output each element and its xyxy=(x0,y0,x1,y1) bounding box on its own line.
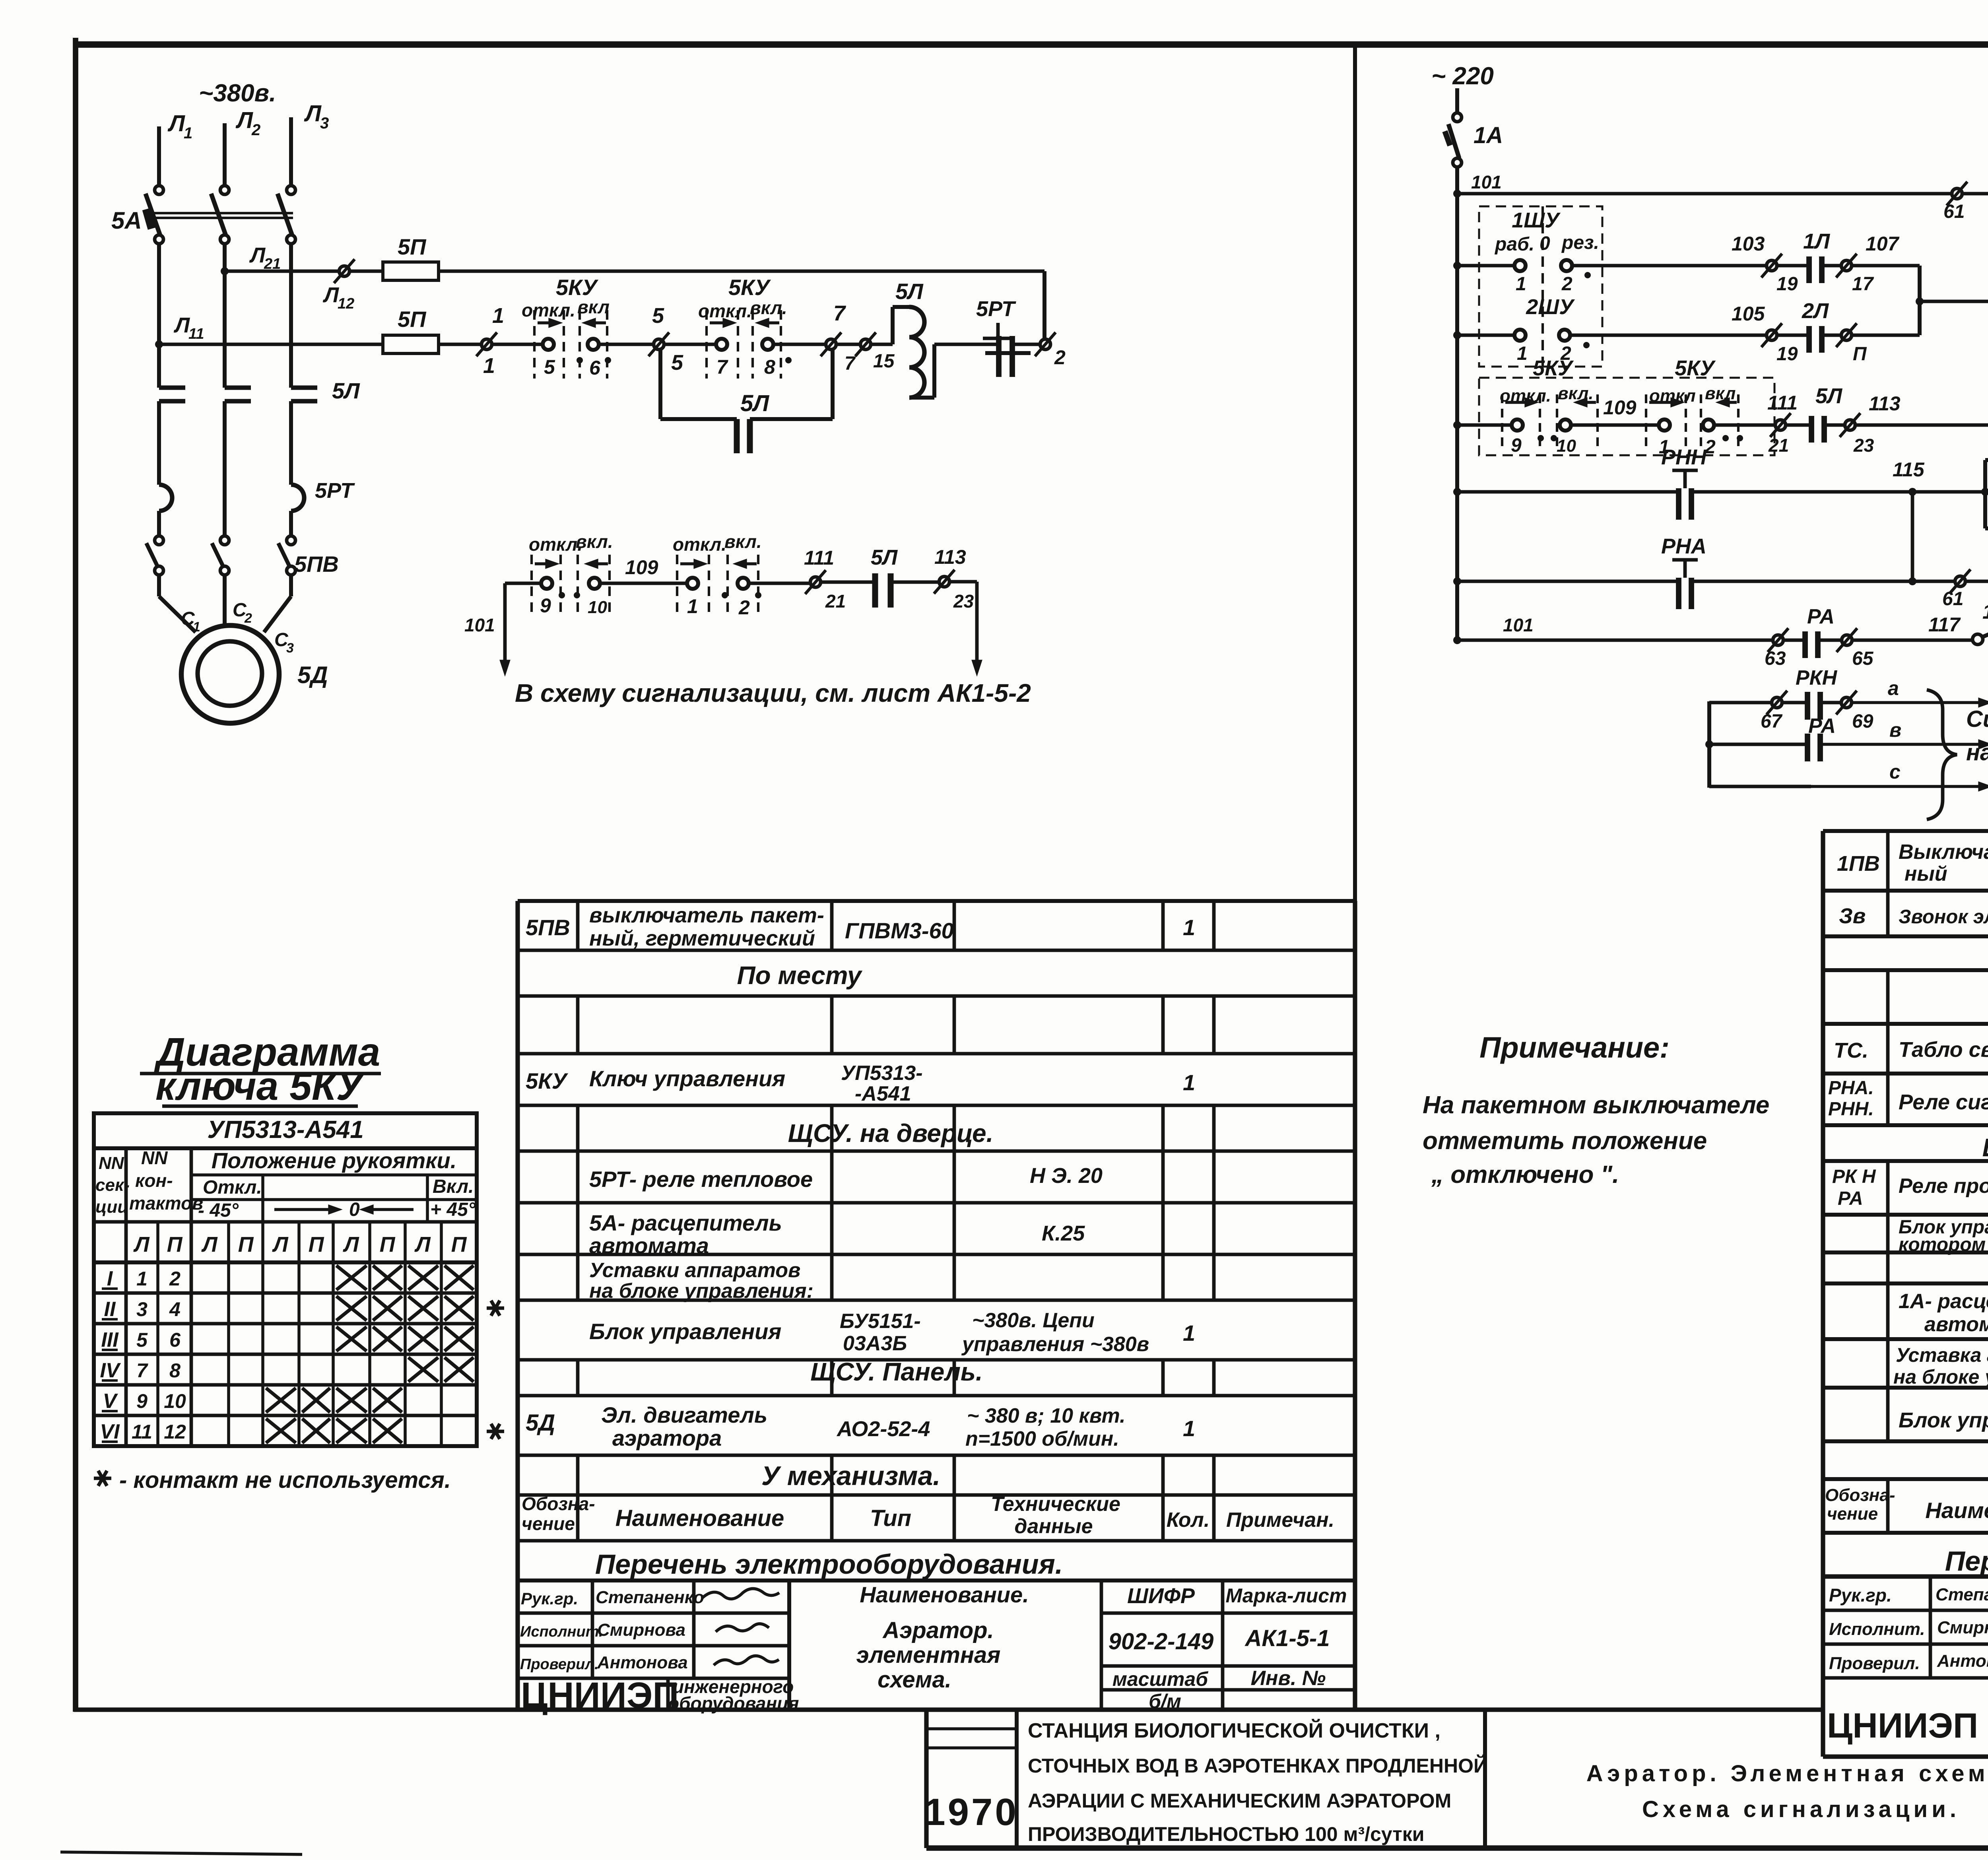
svg-text:Исполнит.: Исполнит. xyxy=(1829,1619,1925,1639)
svg-text:вкл: вкл xyxy=(577,297,610,317)
svg-text:Положение рукоятки.: Положение рукоятки. xyxy=(212,1148,457,1173)
svg-text:ШИФР: ШИФР xyxy=(1127,1584,1195,1608)
svg-text:10: 10 xyxy=(588,598,607,617)
svg-text:выключатель пакет-: выключатель пакет- xyxy=(589,903,824,927)
svg-text:Л: Л xyxy=(173,313,190,337)
key switch 5KU dashed block (signal circuit) xyxy=(1479,378,1774,455)
svg-text:Звонок электрический: Звонок электрический xyxy=(1899,906,1988,928)
svg-text:РНА.: РНА. xyxy=(1828,1078,1874,1099)
svg-text:109: 109 xyxy=(1603,396,1637,419)
svg-text:9: 9 xyxy=(1511,435,1522,456)
svg-text:П: П xyxy=(309,1233,324,1256)
svg-text:6: 6 xyxy=(169,1329,181,1351)
svg-text:-А541: -А541 xyxy=(855,1082,911,1105)
svg-text:1: 1 xyxy=(492,304,504,328)
svg-text:11: 11 xyxy=(188,326,204,342)
row RA: alarm relay xyxy=(1453,577,1461,585)
svg-text:61: 61 xyxy=(1943,201,1965,222)
svg-text:5: 5 xyxy=(136,1329,148,1351)
svg-text:67: 67 xyxy=(1761,711,1783,732)
svg-text:Выключатель пакет-: Выключатель пакет- xyxy=(1899,841,1988,864)
svg-text:19: 19 xyxy=(1776,344,1798,365)
svg-text:П: П xyxy=(1853,344,1867,365)
svg-text:5КУ: 5КУ xyxy=(1533,356,1574,380)
svg-text:5КУ: 5КУ xyxy=(556,275,599,300)
svg-text:на блоке управления:: на блоке управления: xyxy=(589,1279,813,1303)
svg-text:1А- расцепитель: 1А- расцепитель xyxy=(1899,1290,1988,1313)
svg-text:101: 101 xyxy=(1503,615,1534,635)
terminal 1 xyxy=(481,339,492,349)
svg-text:~ 380 в; 10 квт.: ~ 380 в; 10 квт. xyxy=(967,1404,1126,1427)
svg-text:1: 1 xyxy=(687,595,698,617)
svg-text:Сигнал: Сигнал xyxy=(1966,706,1988,732)
svg-text:ный: ный xyxy=(1905,862,1947,885)
svg-text:n=1500 об/мин.: n=1500 об/мин. xyxy=(965,1427,1119,1450)
terminal L12 xyxy=(339,266,349,276)
svg-text:5ПВ: 5ПВ xyxy=(294,551,339,577)
svg-text:Зв: Зв xyxy=(1839,904,1866,928)
bottom title strip grid xyxy=(924,1710,928,1848)
svg-text:б/м: б/м xyxy=(1149,1690,1181,1712)
svg-text:I: I xyxy=(107,1267,113,1290)
svg-text:У механизма.: У механизма. xyxy=(761,1461,940,1491)
wire coil to thermal contact xyxy=(934,343,999,346)
svg-text:откл.: откл. xyxy=(673,534,726,555)
svg-text:на блоке управления:: на блоке управления: xyxy=(1893,1366,1988,1388)
svg-text:Инв. №: Инв. № xyxy=(1251,1667,1326,1690)
border frame left xyxy=(73,38,78,1712)
svg-text:Тип: Тип xyxy=(870,1505,911,1531)
svg-text:Л: Л xyxy=(322,283,340,307)
svg-text:5Л: 5Л xyxy=(740,390,769,416)
svg-text:РА: РА xyxy=(1838,1188,1863,1209)
svg-text:вкл: вкл xyxy=(1705,384,1736,403)
wire c xyxy=(1709,785,1811,788)
svg-text:управления ~380в: управления ~380в xyxy=(961,1333,1149,1356)
svg-text:схема.: схема. xyxy=(878,1667,951,1693)
svg-text:Проверил.: Проверил. xyxy=(1829,1654,1920,1673)
terminal 19 (1L row) xyxy=(1767,260,1777,271)
svg-text:5Д: 5Д xyxy=(526,1410,555,1436)
svg-text:Перечень электрооборудовани: Перечень электрооборудования. xyxy=(1945,1545,1988,1577)
svg-text:23: 23 xyxy=(1853,435,1874,456)
svg-text:СТАНЦИЯ БИОЛОГИЧЕСКОЙ ОЧИСТК: СТАНЦИЯ БИОЛОГИЧЕСКОЙ ОЧИСТКИ , xyxy=(1028,1719,1441,1742)
terminal 61 (RA row) xyxy=(1955,576,1965,586)
svg-text:ГПВМ3-60: ГПВМ3-60 xyxy=(845,918,954,943)
svg-text:NN: NN xyxy=(99,1153,124,1173)
svg-text:Исполнит.: Исполнит. xyxy=(520,1623,603,1640)
svg-text:15: 15 xyxy=(873,351,895,372)
svg-text:12: 12 xyxy=(164,1421,186,1443)
svg-text:Рук.гр.: Рук.гр. xyxy=(521,1589,578,1608)
svg-text:2: 2 xyxy=(738,596,750,619)
svg-text:1: 1 xyxy=(136,1268,148,1290)
svg-text:19: 19 xyxy=(1776,274,1798,295)
svg-text:11: 11 xyxy=(132,1421,152,1443)
svg-text:кон-: кон- xyxy=(135,1170,173,1191)
svg-text:в: в xyxy=(1889,719,1901,741)
selector 1ShU / 2ShU dashed block xyxy=(1479,206,1602,367)
svg-text:Л: Л xyxy=(133,1233,150,1256)
svg-text:2ШУ: 2ШУ xyxy=(1526,295,1575,319)
svg-text:Вкл.: Вкл. xyxy=(433,1176,474,1197)
svg-text:5КУ: 5КУ xyxy=(728,275,771,300)
svg-text:Ключ управления: Ключ управления xyxy=(589,1066,785,1091)
svg-text:2Л: 2Л xyxy=(1802,299,1829,323)
svg-text:3: 3 xyxy=(320,115,329,132)
central divider line between elementary diagram and signal diagram xyxy=(1353,45,1357,1710)
svg-text:69: 69 xyxy=(1852,711,1873,732)
svg-text:ЩСУ. Дверца шкафа.: ЩСУ. Дверца шкафа. xyxy=(1982,1133,1988,1162)
svg-text:аэратора: аэратора xyxy=(612,1425,722,1450)
bottom frame line (left part, above title strip) xyxy=(74,1707,1823,1712)
dispatcher signal block xyxy=(1707,701,1711,788)
svg-text:УП5313-: УП5313- xyxy=(841,1062,923,1085)
right stamp grid xyxy=(1823,1574,1988,1578)
svg-text:РНН.: РНН. xyxy=(1828,1099,1874,1120)
svg-text:3: 3 xyxy=(286,641,294,656)
svg-text:автомата: автомата xyxy=(589,1233,709,1258)
svg-text:ТС.: ТС. xyxy=(1834,1039,1868,1062)
svg-text:107: 107 xyxy=(1866,233,1900,255)
svg-text:Л: Л xyxy=(167,111,185,136)
svg-text:5: 5 xyxy=(544,356,555,378)
svg-text:1: 1 xyxy=(184,124,192,142)
svg-text:0: 0 xyxy=(349,1199,360,1220)
left bus of signal circuit xyxy=(1455,194,1459,640)
svg-text:III: III xyxy=(101,1328,119,1351)
svg-text:21: 21 xyxy=(825,591,846,612)
svg-text:Схема сигнализации.: Схема сигнализации. xyxy=(1642,1796,1960,1822)
svg-text:5ПВ: 5ПВ xyxy=(526,915,570,940)
svg-text:VI: VI xyxy=(100,1420,120,1443)
terminal 2 xyxy=(1040,339,1050,349)
bottom row 101: bell circuit xyxy=(1453,636,1461,644)
terminal 21 / wire 111 xyxy=(1775,420,1786,430)
svg-text:автомата: автомата xyxy=(1924,1313,1988,1336)
svg-text:Л: Л xyxy=(201,1233,218,1256)
svg-text:1: 1 xyxy=(1183,1320,1195,1345)
terminal 23 / wire 113 xyxy=(939,577,949,587)
row 103: pump contactor contact 1L xyxy=(1453,262,1461,270)
svg-text:101: 101 xyxy=(1471,172,1502,192)
svg-text:1: 1 xyxy=(1183,1070,1195,1095)
svg-text:В схему сигнализации, см. лист: В схему сигнализации, см. лист АК1-5-2 xyxy=(515,679,1031,707)
circuit breaker 1A xyxy=(1453,113,1462,122)
svg-text:Смирнова: Смирнова xyxy=(597,1620,685,1640)
wire phase B to switch xyxy=(223,485,227,536)
svg-text:Антонова: Антонова xyxy=(1937,1651,1988,1671)
svg-text:103: 103 xyxy=(1732,233,1765,255)
svg-text:Марка-лист: Марка-лист xyxy=(1226,1584,1347,1607)
svg-text:Блок управления: Блок управления xyxy=(589,1319,781,1344)
svg-text:ЦНИИЭП: ЦНИИЭП xyxy=(521,1675,679,1716)
svg-text:5: 5 xyxy=(652,304,664,328)
svg-text:рез.: рез. xyxy=(1561,232,1599,253)
terminal P xyxy=(1841,330,1852,340)
svg-text:Проверил.: Проверил. xyxy=(520,1656,599,1673)
svg-text:- 45°: - 45° xyxy=(198,1200,239,1221)
svg-text:Степаненко: Степаненко xyxy=(1936,1585,1988,1604)
svg-text:откл.: откл. xyxy=(529,534,582,555)
terminal 7 xyxy=(826,339,836,349)
svg-text:5П: 5П xyxy=(398,234,427,259)
svg-text:61: 61 xyxy=(1942,588,1963,610)
svg-text:УП5313-А541: УП5313-А541 xyxy=(207,1116,363,1144)
svg-text:тактов: тактов xyxy=(129,1193,203,1213)
svg-text:5Л: 5Л xyxy=(332,378,360,403)
svg-text:РКН: РКН xyxy=(1796,666,1838,689)
svg-text:РНН: РНН xyxy=(1661,445,1707,469)
motor 5D xyxy=(181,625,279,723)
svg-text:Смирнова: Смирнова xyxy=(1937,1618,1988,1637)
svg-text:РК Н: РК Н xyxy=(1832,1166,1876,1187)
svg-text:17: 17 xyxy=(1852,274,1874,295)
svg-text:Наименование.: Наименование. xyxy=(860,1582,1029,1607)
svg-text:902-2-149: 902-2-149 xyxy=(1109,1629,1213,1654)
svg-text:Наименование: Наименование xyxy=(615,1505,784,1531)
terminal 21 / wire 111 xyxy=(810,577,821,587)
svg-text:Л: Л xyxy=(235,107,253,133)
svg-text:109: 109 xyxy=(625,556,658,579)
svg-text:3: 3 xyxy=(136,1298,148,1320)
svg-text:котором установлено:: котором установлено: xyxy=(1899,1234,1988,1255)
svg-text:V: V xyxy=(103,1390,118,1413)
svg-text:2: 2 xyxy=(1054,346,1066,369)
svg-text:5РТ- реле тепловое: 5РТ- реле тепловое xyxy=(589,1167,813,1192)
thermal overload element 5RT phase A xyxy=(159,485,172,511)
svg-text:РА: РА xyxy=(1807,605,1835,628)
svg-text:23: 23 xyxy=(953,591,974,612)
wire 109 xyxy=(600,582,687,585)
contactor coil 5L xyxy=(891,307,895,344)
svg-text:П: П xyxy=(238,1233,254,1256)
svg-text:117: 117 xyxy=(1928,614,1961,636)
svg-text:63: 63 xyxy=(1765,648,1786,669)
svg-text:П: П xyxy=(167,1233,183,1256)
terminal 5 xyxy=(654,339,664,349)
svg-text:8: 8 xyxy=(169,1359,181,1382)
signatures (left stamp) xyxy=(702,1588,779,1599)
wire TS junction down to RA row xyxy=(1911,492,1914,581)
svg-text:П: П xyxy=(451,1233,467,1256)
svg-text:6: 6 xyxy=(589,357,601,379)
svg-text:+ 45°: + 45° xyxy=(430,1199,476,1220)
wire corner down to terminal 2 xyxy=(1043,271,1046,340)
svg-text:03А3Б: 03А3Б xyxy=(843,1332,907,1355)
svg-text:ключа 5КУ: ключа 5КУ xyxy=(155,1064,366,1109)
svg-text:21: 21 xyxy=(1768,435,1789,456)
svg-text:Реле промежуточное: Реле промежуточное xyxy=(1899,1175,1988,1198)
svg-text:5Л: 5Л xyxy=(871,546,898,569)
svg-text:Антонова: Антонова xyxy=(597,1653,688,1672)
svg-text:5КУ: 5КУ xyxy=(526,1068,569,1093)
svg-text:~380в.: ~380в. xyxy=(199,80,276,107)
svg-text:7: 7 xyxy=(716,356,728,378)
svg-text:На пакетном выключателе: На пакетном выключателе xyxy=(1423,1091,1769,1119)
svg-text:данные: данные xyxy=(1014,1515,1093,1538)
svg-text:9: 9 xyxy=(136,1390,148,1412)
svg-text:Уставки аппаратов: Уставки аппаратов xyxy=(589,1259,800,1282)
svg-text:чение: чение xyxy=(522,1513,575,1534)
svg-text:101: 101 xyxy=(464,615,495,635)
wire phase A from breaker to contactor xyxy=(157,244,161,388)
wire from fuse 5P to contactor coil branch corner xyxy=(439,270,1044,273)
row 109/111: 5KU contacts 9-10, 1-2 xyxy=(1453,421,1461,429)
relay coil RNN (pump fault) xyxy=(1920,300,1988,303)
wire b xyxy=(1705,740,1713,748)
svg-text:Эл. двигатель: Эл. двигатель xyxy=(601,1402,767,1427)
svg-text:0: 0 xyxy=(1540,233,1550,254)
svg-text:Л: Л xyxy=(414,1233,431,1256)
svg-text:5А: 5А xyxy=(111,207,142,234)
svg-text:10: 10 xyxy=(1557,436,1576,456)
svg-text:113: 113 xyxy=(1869,392,1901,415)
svg-text:II: II xyxy=(104,1298,116,1321)
wire 101 xyxy=(1455,167,1459,194)
merge wire rows 103/105 xyxy=(1918,266,1922,335)
svg-text:Наименование.: Наименование. xyxy=(1925,1498,1988,1523)
svg-text:5РТ: 5РТ xyxy=(315,479,355,503)
svg-text:П: П xyxy=(380,1233,396,1256)
svg-text:ЩСУ. на дверце.: ЩСУ. на дверце. xyxy=(788,1119,994,1147)
brace and caption signal to dispatcher post xyxy=(1927,690,1957,819)
svg-text:ПРОИЗВОДИТЕЛЬНОСТЬЮ 100 м³/сут: ПРОИЗВОДИТЕЛЬНОСТЬЮ 100 м³/сутки xyxy=(1028,1823,1424,1845)
svg-text:Л: Л xyxy=(342,1233,359,1256)
svg-text:АЭРАЦИИ С МЕХАНИЧЕСКИМ АЭРА: АЭРАЦИИ С МЕХАНИЧЕСКИМ АЭРАТОРОМ xyxy=(1028,1790,1451,1812)
svg-text:Реле сигнальное: Реле сигнальное xyxy=(1899,1090,1988,1114)
svg-text:111: 111 xyxy=(1767,392,1798,414)
svg-text:на ДП.: на ДП. xyxy=(1966,740,1988,765)
svg-text:7: 7 xyxy=(833,301,846,325)
svg-text:Табло световое: Табло световое xyxy=(1899,1038,1988,1062)
svg-text:2: 2 xyxy=(1561,274,1573,295)
svg-text:1Л: 1Л xyxy=(1803,229,1831,253)
svg-text:ЩСУ. Панель.: ЩСУ. Панель. xyxy=(810,1357,982,1386)
svg-text:Аэратор.: Аэратор. xyxy=(882,1617,994,1643)
svg-text:Блок управления: Блок управления xyxy=(1899,1408,1988,1432)
svg-text:5А- расцепитель: 5А- расцепитель xyxy=(589,1210,782,1235)
row 101: voltage control relay RKN xyxy=(1453,190,1461,198)
svg-text:ции: ции xyxy=(95,1197,128,1217)
svg-text:105: 105 xyxy=(1732,303,1765,325)
svg-text:элементная: элементная xyxy=(856,1642,1001,1668)
terminal 17 / wire 107 xyxy=(1841,260,1852,271)
svg-text:5: 5 xyxy=(671,351,683,375)
wire a xyxy=(1709,701,1772,705)
svg-text:К.25: К.25 xyxy=(1042,1221,1085,1245)
svg-text:Л: Л xyxy=(304,101,322,126)
wire control feed lower (phase A) xyxy=(159,343,383,346)
sheet trim edge bottom-left xyxy=(60,1852,302,1854)
row 115: light board TS xyxy=(1453,488,1461,496)
node L21 tap xyxy=(221,267,229,275)
svg-text:СТОЧНЫХ ВОД В АЭРОТЕНКАХ ПРОДЛ: СТОЧНЫХ ВОД В АЭРОТЕНКАХ ПРОДЛЕННОЙ xyxy=(1028,1754,1488,1777)
svg-text:По месту: По месту xyxy=(737,961,863,990)
svg-text:Примечан.: Примечан. xyxy=(1226,1509,1334,1532)
svg-text:115: 115 xyxy=(1893,458,1925,481)
svg-text:„ отключено ".: „ отключено ". xyxy=(1431,1161,1619,1188)
light board TS with two lamps xyxy=(1912,490,1985,494)
svg-text:2: 2 xyxy=(244,611,252,626)
svg-text:2: 2 xyxy=(251,121,260,139)
svg-text:Аэратор. Элементная схема.: Аэратор. Элементная схема. xyxy=(1586,1761,1988,1786)
svg-text:7: 7 xyxy=(136,1359,148,1382)
svg-text:4: 4 xyxy=(169,1298,181,1320)
svg-text:раб.: раб. xyxy=(1494,234,1534,255)
svg-text:~380в. Цепи: ~380в. Цепи xyxy=(972,1309,1095,1332)
terminal 63 xyxy=(1773,635,1783,645)
svg-text:1А: 1А xyxy=(1474,122,1503,148)
svg-text:РНА: РНА xyxy=(1661,534,1706,558)
svg-text:5П: 5П xyxy=(398,307,427,332)
svg-text:1: 1 xyxy=(483,354,495,378)
svg-text:5Л: 5Л xyxy=(895,279,924,304)
svg-text:Примечание:: Примечание: xyxy=(1479,1031,1670,1064)
wire to signalling diagram with down arrow xyxy=(975,582,979,668)
svg-text:1: 1 xyxy=(1516,274,1526,295)
svg-text:1: 1 xyxy=(1183,915,1195,940)
svg-text:IV: IV xyxy=(100,1359,121,1382)
terminal 65 xyxy=(1842,635,1852,645)
svg-text:5Д: 5Д xyxy=(297,662,328,688)
svg-text:Кол.: Кол. xyxy=(1167,1509,1210,1532)
wire phase B from breaker to contactor xyxy=(223,244,227,388)
svg-text:Откл.: Откл. xyxy=(203,1177,262,1198)
key diagram table grid xyxy=(94,1113,477,1446)
svg-text:сек-: сек- xyxy=(95,1175,130,1195)
svg-text:1970: 1970 xyxy=(924,1791,1019,1833)
svg-text:ный, герметический: ный, герметический xyxy=(589,926,815,950)
auxiliary holding contact 5L bypass xyxy=(658,350,662,419)
svg-text:вкл.: вкл. xyxy=(724,531,762,552)
wire supply drop xyxy=(1455,88,1459,113)
asterisk marks for unused contacts xyxy=(487,1307,504,1310)
svg-text:Технические: Технические xyxy=(991,1493,1120,1516)
svg-text:- контакт не используется.: - контакт не используется. xyxy=(119,1467,451,1493)
svg-text:8: 8 xyxy=(764,356,775,378)
svg-text:~ 220: ~ 220 xyxy=(1431,62,1494,90)
node L11 tap xyxy=(155,340,163,348)
svg-text:2: 2 xyxy=(169,1268,181,1290)
svg-text:вкл.: вкл. xyxy=(576,531,613,552)
svg-text:1ПВ: 1ПВ xyxy=(1982,600,1988,623)
equipment list table (right) grid xyxy=(1823,829,1988,833)
svg-text:Степаненко: Степаненко xyxy=(596,1588,704,1607)
svg-text:7: 7 xyxy=(845,353,856,374)
svg-text:9: 9 xyxy=(540,594,551,617)
svg-text:ЦНИИЭП: ЦНИИЭП xyxy=(1827,1706,1978,1745)
svg-text:1: 1 xyxy=(1517,343,1528,364)
terminal 15 xyxy=(860,339,871,349)
svg-text:а: а xyxy=(1888,677,1899,699)
svg-text:оборудования: оборудования xyxy=(668,1693,799,1714)
svg-text:Обозна-: Обозна- xyxy=(522,1493,595,1514)
terminal 61 (RKN row) xyxy=(1952,188,1962,199)
svg-text:NN: NN xyxy=(141,1147,168,1168)
svg-text:Н Э. 20: Н Э. 20 xyxy=(1030,1164,1103,1188)
wire control feed upper (L12) xyxy=(225,270,339,273)
svg-text:с: с xyxy=(1889,761,1901,783)
svg-text:1ШУ: 1ШУ xyxy=(1512,208,1561,232)
row 105: reserve pump contactor contact 2L xyxy=(1453,331,1461,339)
svg-text:Уставка аппаратов: Уставка аппаратов xyxy=(1896,1344,1988,1366)
svg-text:111: 111 xyxy=(804,547,834,569)
svg-text:65: 65 xyxy=(1852,648,1874,669)
svg-text:113: 113 xyxy=(934,546,966,568)
svg-text:АК1-5-1: АК1-5-1 xyxy=(1244,1625,1330,1651)
svg-text:Л: Л xyxy=(272,1233,289,1256)
